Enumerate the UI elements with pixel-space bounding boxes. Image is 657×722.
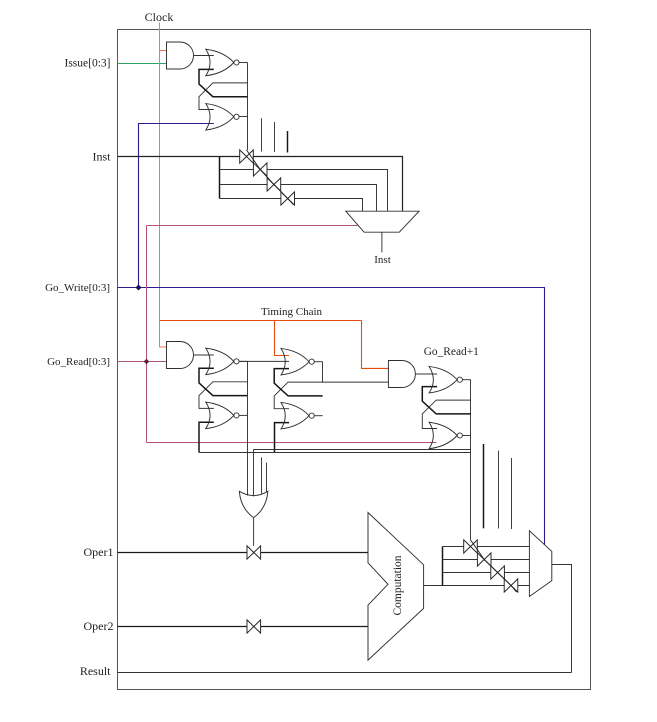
svg-text:Issue[0:3]: Issue[0:3] (65, 58, 111, 70)
svg-text:Timing Chain: Timing Chain (261, 306, 323, 318)
svg-text:Go_Read[0:3]: Go_Read[0:3] (47, 356, 110, 368)
svg-text:Computation: Computation (392, 555, 404, 615)
svg-text:Inst: Inst (374, 254, 391, 266)
svg-text:Oper1: Oper1 (84, 545, 114, 559)
svg-text:Result: Result (80, 664, 111, 678)
svg-text:Oper2: Oper2 (84, 619, 114, 633)
svg-text:Clock: Clock (145, 10, 174, 24)
svg-text:Go_Write[0:3]: Go_Write[0:3] (45, 282, 110, 294)
svg-text:Go_Read+1: Go_Read+1 (424, 346, 479, 358)
svg-text:Inst: Inst (93, 150, 112, 164)
